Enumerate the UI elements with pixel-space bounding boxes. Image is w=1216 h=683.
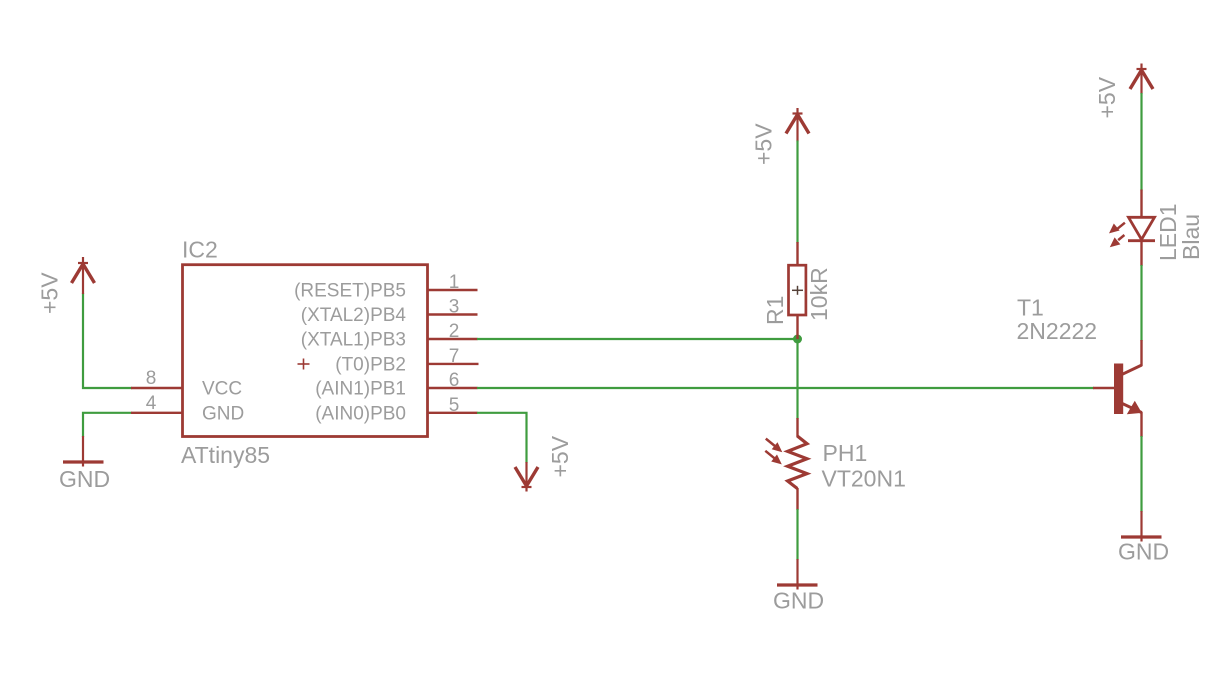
IC U IC2 ATtiny85 body — [183, 265, 428, 437]
transistor T1 emitter with arrow — [1123, 401, 1142, 437]
pin 7 (PB2) — [427, 363, 479, 365]
pin number 3 — [449, 297, 460, 318]
svg-text:+5V: +5V — [37, 272, 63, 314]
pin number 1 — [449, 272, 460, 293]
pin number 4 — [146, 393, 157, 414]
svg-text:5: 5 — [449, 395, 460, 416]
photoresistor PH1 light arrow 1 — [766, 439, 783, 453]
pin 1 (PB5) — [427, 289, 478, 291]
resistor R1 top pin — [796, 242, 798, 266]
svg-text:6: 6 — [449, 370, 460, 391]
resistor R1 body — [789, 265, 806, 315]
svg-text:4: 4 — [146, 393, 157, 414]
svg-text:IC2: IC2 — [182, 237, 218, 263]
svg-text:GND: GND — [59, 466, 110, 492]
wire net GND: pin 4 to ground — [83, 413, 132, 437]
pin 6 (PB1) — [427, 387, 478, 389]
LED LED1 symbol — [1128, 217, 1155, 240]
label +5V (left) — [37, 272, 63, 314]
svg-text:(AIN0)PB0: (AIN0)PB0 — [315, 403, 406, 424]
IC2 origin cross — [298, 359, 310, 370]
LED LED1 bottom pin — [1140, 241, 1142, 267]
svg-text:10kR: 10kR — [806, 267, 832, 321]
pin name (RESET)PB5 — [294, 281, 406, 302]
pin name (AIN0)PB0 — [315, 403, 406, 424]
photoresistor PH1 zigzag — [788, 436, 807, 489]
pin name (XTAL1)PB3 — [301, 330, 406, 351]
label IC2 — [182, 237, 218, 263]
transistor T1 collector — [1123, 340, 1142, 374]
svg-text:(RESET)PB5: (RESET)PB5 — [294, 281, 406, 302]
wire net N$2: pin 6 to T1 base — [477, 387, 1094, 389]
pin number 6 — [449, 370, 460, 391]
svg-text:Blau: Blau — [1178, 214, 1204, 260]
svg-text:8: 8 — [146, 368, 157, 389]
pin name (T0)PB2 — [335, 354, 406, 375]
svg-text:(XTAL2)PB4: (XTAL2)PB4 — [301, 305, 407, 326]
label LED1 — [1155, 203, 1181, 261]
svg-text:(AIN1)PB1: (AIN1)PB1 — [315, 379, 406, 400]
label 10kR — [806, 267, 832, 321]
svg-text:2N2222: 2N2222 — [1017, 318, 1098, 344]
pin 8 (VCC) — [131, 387, 182, 389]
wire net GND: PH1 to ground — [796, 509, 798, 560]
wire net +5V to R1 — [796, 141, 798, 244]
svg-text:3: 3 — [449, 297, 460, 318]
label ATtiny85 — [181, 442, 270, 468]
wire net +5V to LED1 — [1140, 93, 1142, 191]
wire net GND: T1 emitter to ground — [1140, 436, 1142, 512]
label R1 — [762, 296, 788, 325]
supply +5V P3 (above R1) — [786, 108, 809, 142]
resistor R1 bottom pin — [796, 315, 798, 341]
svg-text:VT20N1: VT20N1 — [822, 466, 906, 492]
pin number 2 — [449, 321, 460, 342]
label VT20N1 — [822, 466, 906, 492]
wire net VCC: +5V to pin 8 — [83, 293, 132, 388]
svg-text:VCC: VCC — [202, 379, 242, 400]
pin number 7 — [449, 346, 460, 367]
pin 2 (PB3) — [427, 338, 478, 340]
ground GND (below PH1) — [777, 559, 818, 590]
svg-text:T1: T1 — [1017, 295, 1044, 321]
svg-text:1: 1 — [449, 272, 460, 293]
supply +5V P2 (below pin 5, pointing down) — [515, 462, 538, 492]
label +5V (above R1) — [751, 123, 777, 165]
pin name VCC — [202, 379, 242, 400]
svg-text:(XTAL1)PB3: (XTAL1)PB3 — [301, 330, 406, 351]
svg-text:(T0)PB2: (T0)PB2 — [335, 354, 406, 375]
wire net N$1: pin 2 to R1 junction — [477, 338, 798, 340]
supply +5V P1 (left of IC2) — [72, 257, 95, 294]
pin 4 (GND) — [131, 412, 182, 414]
label GND (mid) — [773, 588, 824, 614]
resistor R1 origin cross — [792, 286, 803, 295]
svg-text:+5V: +5V — [751, 123, 777, 165]
ground GND (below T1) — [1121, 511, 1162, 542]
svg-text:2: 2 — [449, 321, 460, 342]
LED LED1 light arrow 1 — [1109, 223, 1125, 234]
svg-text:+5V: +5V — [547, 435, 573, 477]
pin name GND — [202, 403, 244, 424]
label T1 — [1017, 295, 1044, 321]
svg-text:PH1: PH1 — [823, 440, 868, 466]
svg-text:7: 7 — [449, 346, 460, 367]
label GND (left) — [59, 466, 110, 492]
svg-text:R1: R1 — [762, 296, 788, 325]
photoresistor PH1 light arrow 2 — [765, 451, 782, 465]
pin name (AIN1)PB1 — [315, 379, 406, 400]
transistor T1 base pin — [1093, 387, 1115, 389]
label Blau — [1178, 214, 1204, 260]
photoresistor PH1 top pin — [796, 418, 798, 437]
LED LED1 top pin — [1140, 190, 1142, 218]
wire net +5V: pin 5 to +5V arrow — [477, 413, 527, 463]
label +5V (top right) — [1094, 76, 1120, 118]
svg-text:GND: GND — [773, 588, 824, 614]
label 2N2222 — [1017, 318, 1098, 344]
label GND (right) — [1118, 539, 1169, 565]
pin number 5 — [449, 395, 460, 416]
pin 5 (PB0) — [427, 412, 478, 414]
wire net N$1 vertical: junction to PH1 — [796, 339, 798, 419]
pin name (XTAL2)PB4 — [301, 305, 407, 326]
photoresistor PH1 bottom pin — [796, 488, 798, 510]
transistor T1 base bar — [1114, 364, 1123, 415]
svg-text:GND: GND — [202, 403, 244, 424]
svg-text:+5V: +5V — [1094, 76, 1120, 118]
pin number 8 — [146, 368, 157, 389]
junction node at R1 bottom — [793, 335, 802, 344]
pin 3 (PB4) — [427, 313, 478, 315]
label PH1 — [823, 440, 868, 466]
svg-text:ATtiny85: ATtiny85 — [181, 442, 270, 468]
wire net: LED1 to T1 collector — [1140, 265, 1142, 341]
ground GND (left, below pin 4) — [63, 436, 104, 467]
svg-text:GND: GND — [1118, 539, 1169, 565]
label +5V (mid) — [547, 435, 573, 477]
LED LED1 light arrow 2 — [1110, 235, 1125, 247]
supply +5V P4 (above LED1) — [1130, 64, 1153, 95]
